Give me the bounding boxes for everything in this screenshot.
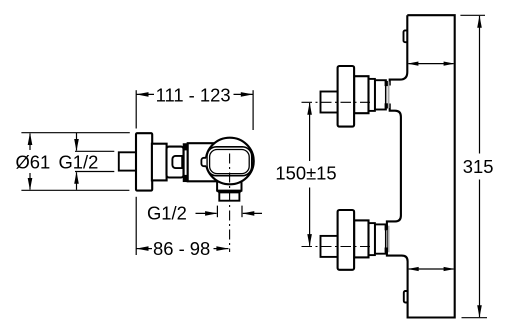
G1/2 wall stub top extension line bbox=[75, 150, 114, 152]
G1/2 wall stub top arrow bbox=[76, 133, 78, 151]
wall supply stub G1/2 bbox=[119, 152, 136, 170]
dimension 150+-15 upper arrowhead bbox=[307, 102, 312, 114]
body top-left tab bbox=[403, 30, 407, 42]
svg-text:G1/2: G1/2 bbox=[147, 203, 187, 224]
bottom inlet collar ring bbox=[369, 223, 375, 255]
outlet G1/2 right extension line bbox=[241, 206, 243, 218]
bottom inlet thread gray lines bbox=[387, 226, 389, 253]
ring between handle and knob bbox=[184, 144, 188, 181]
top inlet centerline dash-dot bbox=[302, 101, 371, 103]
dimension O61 bottom extension line bbox=[21, 189, 129, 191]
notch on left of knob circle bbox=[201, 158, 206, 166]
bottom inlet escutcheon flange bbox=[338, 210, 355, 270]
extension line right (front of knob) bbox=[252, 90, 254, 130]
mixer body outline bbox=[387, 15, 455, 317]
outlet cup below knob bbox=[216, 181, 242, 191]
G1/2 wall stub bottom extension line bbox=[75, 171, 114, 173]
top inlet escutcheon flange bbox=[338, 66, 355, 127]
ring end bar top bbox=[184, 144, 188, 151]
dimension 315 lower arrowhead bbox=[477, 305, 482, 317]
dimension 111-123 arrowheads bbox=[136, 92, 253, 97]
top inlet collar ring bbox=[369, 79, 375, 111]
bottom inlet centerline dash-dot bbox=[302, 246, 371, 248]
body bottom seam line with arrows bbox=[409, 268, 454, 270]
handle section B bbox=[167, 147, 184, 178]
outlet G1/2 left arrow bbox=[196, 212, 217, 214]
bottom inlet nut cap upper bbox=[385, 225, 388, 230]
outlet nut G1/2 bbox=[219, 192, 239, 200]
bottom inlet wall stub G1/2 bbox=[321, 236, 340, 257]
top inlet nut cap upper bbox=[385, 81, 388, 86]
knob face outer rounded rectangle bbox=[207, 147, 252, 176]
body top seam line with arrows bbox=[409, 63, 454, 65]
ring end bar bottom bbox=[184, 175, 188, 181]
top inlet union nut bbox=[375, 80, 386, 109]
dimension 111-123 line segments bbox=[136, 93, 253, 95]
button tab on handle bbox=[172, 156, 182, 168]
bottom inlet nut cap lower bbox=[385, 248, 388, 253]
bottom inlet eccentric fitting bbox=[354, 220, 368, 257]
knob circle bbox=[206, 138, 254, 185]
outlet chamfer bbox=[217, 191, 241, 193]
bottom inlet union nut bbox=[375, 224, 386, 253]
dimension 315 line upper part bbox=[479, 16, 481, 154]
outlet G1/2 right arrow bbox=[243, 212, 262, 214]
outlet G1/2 left extension line bbox=[216, 206, 218, 218]
dimension 315 bottom extension line bbox=[462, 317, 488, 319]
svg-text:86 - 98: 86 - 98 bbox=[153, 238, 210, 259]
wall escutcheon flange O61 bbox=[136, 133, 152, 190]
extension line left (wall plane) lower bbox=[135, 197, 137, 255]
dimension 150+-15 upper line bbox=[309, 103, 311, 161]
top inlet eccentric fitting bbox=[354, 76, 368, 113]
svg-text:111 - 123: 111 - 123 bbox=[156, 84, 231, 105]
G1/2 wall stub bottom arrow bbox=[76, 172, 78, 190]
dimension O61 top arrow bbox=[29, 134, 31, 151]
body bottom-left tab bbox=[404, 291, 408, 303]
dimension O61 bottom arrow bbox=[29, 173, 31, 190]
top inlet wall stub G1/2 bbox=[321, 92, 340, 113]
dimension 315 line lower part bbox=[479, 180, 481, 318]
extension line left (wall plane) upper bbox=[135, 90, 137, 128]
knob hub section D bbox=[188, 143, 220, 181]
svg-text:150±15: 150±15 bbox=[275, 163, 336, 184]
dimension 150+-15 lower line bbox=[309, 188, 311, 246]
top inlet thread gray lines bbox=[387, 82, 389, 109]
top inlet nut cap lower bbox=[385, 103, 388, 108]
dimension 86-98 arrowheads bbox=[136, 246, 229, 251]
svg-text:G1/2: G1/2 bbox=[59, 152, 99, 173]
svg-text:Ø61: Ø61 bbox=[16, 152, 51, 173]
dimension 150+-15 lower arrowhead bbox=[307, 234, 312, 246]
svg-text:315: 315 bbox=[463, 156, 494, 177]
body cylinder A bbox=[152, 144, 167, 181]
dimension 86-98 line segments bbox=[136, 248, 228, 250]
dimension 315 top extension line bbox=[460, 14, 485, 16]
centerline of outlet (dash-dot vertical) bbox=[229, 154, 231, 253]
dimension 315 upper arrowhead bbox=[477, 15, 482, 27]
dimension O61 top extension line bbox=[21, 132, 129, 134]
knob face inner rounded rectangle bbox=[210, 150, 250, 174]
